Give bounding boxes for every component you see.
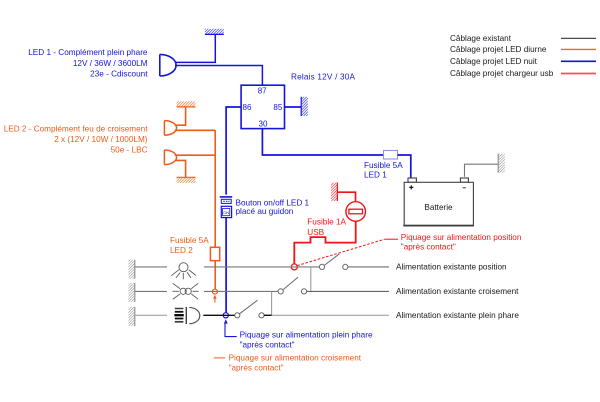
label LED 1 description: [28, 48, 148, 79]
lamp LED1 headlight: [160, 54, 176, 76]
wire lamp L2 to bus: [175, 154, 215, 156]
svg-text:Batterie: Batterie: [424, 203, 453, 212]
legend line LED nuit: [561, 60, 596, 62]
fuse F1 5A LED1: [384, 151, 398, 160]
wire lamp L2 to ground G4: [175, 160, 186, 177]
wire usb charger to fuse F3: [294, 221, 355, 264]
wall W2 gray croisement: [128, 283, 134, 302]
wire junction position-croisement: [310, 267, 312, 292]
svg-text:Câblage projet LED nuit: Câblage projet LED nuit: [450, 57, 538, 66]
wire switch plein phare to label: [264, 314, 272, 316]
wire ground G5 to usb charger: [337, 192, 355, 202]
svg-text:2 x (12V / 10W / 1000LM): 2 x (12V / 10W / 1000LM): [54, 135, 148, 144]
relay U1 box: [241, 85, 284, 128]
wire LED1 to ground G1: [175, 34, 215, 62]
wall W3 gray plein phare: [128, 307, 134, 326]
svg-text:Alimentation existante plein p: Alimentation existante plein phare: [396, 311, 519, 320]
switch croisement: [278, 277, 307, 294]
leader line blue annotation: [225, 324, 237, 337]
svg-text:"après contact": "après contact": [240, 341, 295, 350]
wire lamp L1 to bus: [175, 129, 215, 131]
battery terminal plus: [408, 178, 416, 182]
switch plein phare: [235, 300, 264, 318]
svg-text:Fusible 1A: Fusible 1A: [307, 217, 346, 226]
label piquage croisement: [229, 354, 362, 373]
label piquage position: [401, 233, 522, 251]
wire fuse F1 to battery plus: [398, 155, 411, 178]
wire switch croisement to label: [307, 290, 389, 292]
leader dashed red: [297, 239, 385, 265]
lamp position symbol: [171, 263, 196, 280]
wire lamp position to switch: [204, 266, 320, 268]
legend line chargeur usb: [561, 73, 596, 75]
svg-text:Piquage sur alimentation posit: Piquage sur alimentation position: [401, 233, 522, 242]
lamp LED2 A: [164, 121, 176, 136]
fuse F2 5A LED2: [210, 247, 219, 260]
wire junction croisement-pleinphare: [271, 291, 273, 315]
ground G2 blue right of relay: [301, 97, 308, 116]
svg-text:30: 30: [259, 120, 268, 129]
switch S1 bouton on/off: [220, 197, 233, 218]
svg-text:86: 86: [243, 103, 252, 112]
label bouton on/off: [236, 198, 310, 216]
svg-text:"après contact": "après contact": [401, 242, 456, 251]
leader dash red: [385, 238, 398, 240]
arrow blue annotation: [224, 319, 228, 323]
ground G5 red: [331, 183, 337, 201]
battery bottom edge: [403, 225, 474, 227]
svg-text:LED 1 - Complément plein phare: LED 1 - Complément plein phare: [28, 48, 148, 57]
svg-text:Alimentation existante croisem: Alimentation existante croisement: [396, 287, 519, 296]
svg-text:LED 1: LED 1: [364, 170, 387, 179]
label fusible 5A LED 2: [170, 236, 209, 255]
legend line existant: [561, 37, 596, 39]
node blue on plein phare line: [223, 313, 228, 318]
svg-text:Fusible 5A: Fusible 5A: [364, 161, 403, 170]
label piquage plein phare: [240, 330, 373, 349]
svg-text:USB: USB: [307, 228, 324, 237]
wire fuse F2 to node croisement: [214, 261, 216, 289]
wire relay pin 86 to switch: [226, 107, 241, 195]
svg-text:ON: ON: [223, 210, 229, 215]
svg-text:Câblage projet LED diurne: Câblage projet LED diurne: [450, 45, 547, 54]
usb charger plug symbol: [346, 202, 366, 222]
svg-text:Alimentation existante positio: Alimentation existante position: [396, 263, 507, 272]
svg-text:Relais 12V / 30A: Relais 12V / 30A: [291, 73, 356, 82]
svg-text:"après contact": "après contact": [229, 364, 284, 373]
wire battery minus to ground: [465, 164, 499, 177]
battery plus sign: [409, 185, 413, 189]
ground G1 blue top: [205, 29, 224, 35]
wire relay pin 30 to fuse F1: [262, 129, 383, 155]
wire switch to node plein phare: [225, 218, 227, 313]
switch position: [319, 254, 348, 270]
arrow orange annotation: [213, 295, 217, 299]
svg-text:Piquage sur alimentation plein: Piquage sur alimentation plein phare: [240, 330, 373, 339]
battery body: [404, 182, 473, 225]
leader dash orange: [214, 357, 225, 359]
svg-text:placé au guidon: placé au guidon: [236, 207, 294, 216]
wire lamp plein phare to node: [203, 314, 234, 316]
wire wall W1 to lamp position: [135, 266, 167, 268]
svg-text:Câblage existant: Câblage existant: [450, 34, 512, 43]
wire LED1 to relay 87: [175, 66, 262, 86]
node red on position line: [291, 264, 297, 270]
wire lamp L1 to ground G3: [175, 107, 186, 125]
label fusible 5A LED 1: [364, 161, 403, 180]
label LED 2 description: [4, 125, 149, 155]
wire wall W3 to lamp plein phare: [135, 314, 167, 316]
lamp plein phare symbol: [174, 307, 199, 324]
svg-text:85: 85: [273, 103, 282, 112]
lamp LED2 B: [164, 150, 176, 165]
node orange on croisement line: [212, 289, 217, 294]
wire relay pin 85 to ground: [285, 106, 302, 108]
wall W1 gray position: [128, 260, 134, 279]
ground G6 gray battery: [498, 154, 505, 173]
svg-text:12V / 36W / 3600LM: 12V / 36W / 3600LM: [73, 59, 148, 68]
svg-text:50e - LBC: 50e - LBC: [111, 146, 148, 155]
ground G4 orange bottom: [177, 177, 196, 183]
legend line LED diurne: [561, 48, 596, 50]
stub orange annotation: [214, 299, 216, 303]
svg-text:LED 2: LED 2: [170, 246, 193, 255]
svg-text:Câblage projet chargeur usb: Câblage projet chargeur usb: [450, 69, 554, 78]
svg-text:LED 2 - Complément feu de croi: LED 2 - Complément feu de croisement: [4, 125, 149, 134]
svg-text:Fusible 5A: Fusible 5A: [170, 236, 209, 245]
svg-text:23e - Cdiscount: 23e - Cdiscount: [90, 70, 148, 79]
battery minus sign: [463, 187, 466, 189]
svg-text:87: 87: [258, 87, 267, 96]
lamp croisement symbol: [173, 283, 199, 299]
label fusible 1A USB: [307, 217, 346, 237]
svg-text:Piquage sur alimentation crois: Piquage sur alimentation croisement: [229, 354, 362, 363]
ground G3 orange top: [177, 101, 196, 107]
wire switch position to label: [348, 266, 389, 268]
battery terminal minus: [460, 178, 468, 182]
wire wall W2 to lamp croisement: [135, 290, 167, 292]
wire lamp croisement to switch: [204, 290, 278, 292]
wire orange bus to fuse F2: [214, 130, 216, 247]
